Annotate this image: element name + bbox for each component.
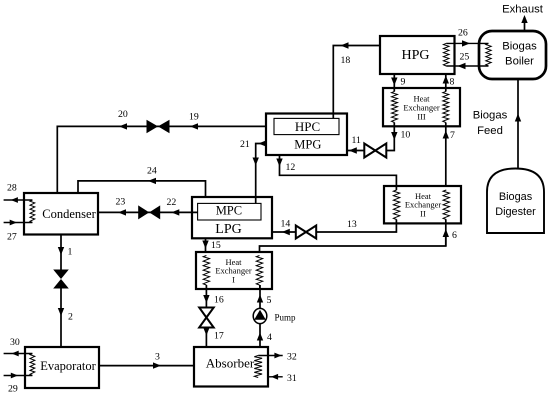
label 26 bbox=[458, 28, 468, 39]
label 14 bbox=[281, 219, 291, 230]
svg-text:12: 12 bbox=[286, 162, 296, 173]
svg-text:18: 18 bbox=[341, 55, 351, 66]
stream 16 line bbox=[205, 285, 207, 308]
stream 17 arrow bbox=[203, 328, 209, 336]
svg-text:MPC: MPC bbox=[216, 203, 242, 217]
stream 28 arrow bbox=[11, 197, 18, 203]
exhaust line bbox=[524, 17, 526, 31]
stream 7 arrow bbox=[443, 131, 449, 139]
heat exchanger I left coil bbox=[203, 256, 209, 286]
label 17 bbox=[214, 331, 224, 342]
svg-text:Biogas: Biogas bbox=[502, 41, 537, 53]
label 8 bbox=[450, 77, 455, 88]
svg-text:LPG: LPG bbox=[215, 222, 241, 237]
stream 30 line bbox=[4, 353, 33, 355]
label Exhaust bbox=[502, 4, 544, 16]
label 1 bbox=[68, 247, 73, 258]
svg-text:16: 16 bbox=[214, 295, 224, 306]
stream 24 arrow bbox=[148, 178, 156, 184]
label 22 bbox=[167, 197, 177, 208]
svg-text:20: 20 bbox=[118, 109, 128, 120]
stream 5 line bbox=[259, 285, 262, 309]
svg-text:31: 31 bbox=[287, 373, 297, 384]
biogas boiler bbox=[479, 31, 546, 79]
svg-text:28: 28 bbox=[7, 183, 17, 194]
stream 20 arrow bbox=[119, 123, 127, 129]
stream 14 line bbox=[272, 231, 296, 233]
valve V20 bbox=[147, 120, 170, 134]
stream 2 line bbox=[60, 289, 62, 348]
label 15 bbox=[211, 240, 221, 251]
svg-text:7: 7 bbox=[450, 130, 455, 141]
svg-text:Feed: Feed bbox=[477, 125, 503, 137]
label 6 bbox=[452, 230, 457, 241]
stream 8 arrow bbox=[443, 76, 449, 84]
label 25 bbox=[460, 52, 470, 63]
svg-text:HPC: HPC bbox=[295, 119, 320, 134]
stream 3 line bbox=[99, 365, 194, 367]
svg-text:Digester: Digester bbox=[495, 206, 536, 218]
label 18 bbox=[341, 55, 351, 66]
stream 32 arrow bbox=[274, 353, 281, 359]
stream 18 arrow bbox=[341, 42, 349, 48]
label 29 bbox=[8, 384, 18, 394]
svg-text:22: 22 bbox=[167, 197, 177, 208]
svg-text:9: 9 bbox=[401, 77, 406, 88]
stream 30 arrow bbox=[12, 351, 19, 357]
svg-text:6: 6 bbox=[452, 230, 457, 241]
stream 15 arrow bbox=[202, 241, 208, 249]
svg-text:3: 3 bbox=[155, 352, 160, 363]
label 24 bbox=[147, 166, 157, 177]
stream 19-20 line bbox=[57, 126, 266, 193]
svg-text:30: 30 bbox=[10, 337, 20, 348]
label Pump bbox=[275, 312, 297, 322]
label 7 bbox=[450, 130, 455, 141]
heat exchanger II right coil bbox=[443, 190, 449, 220]
stream 12 arrow bbox=[276, 159, 282, 167]
label 21 bbox=[240, 139, 250, 150]
stream 15 line bbox=[205, 238, 207, 252]
label 27 bbox=[7, 232, 17, 243]
absorber coil bbox=[254, 356, 262, 378]
label 31 bbox=[287, 373, 297, 384]
stream 8 line bbox=[445, 74, 447, 92]
stream 6 arrow bbox=[443, 229, 449, 237]
svg-text:Absorber: Absorber bbox=[206, 356, 255, 371]
absorber vessel bbox=[194, 347, 268, 387]
stream 4 line bbox=[259, 323, 261, 347]
stream 11 arrow bbox=[349, 147, 357, 153]
stream 32 line bbox=[258, 355, 283, 357]
label 10 bbox=[401, 130, 411, 141]
svg-text:27: 27 bbox=[7, 232, 17, 243]
label Biogas Feed bbox=[473, 110, 508, 138]
svg-text:Boiler: Boiler bbox=[505, 56, 534, 68]
label 16 bbox=[214, 295, 224, 306]
svg-text:17: 17 bbox=[214, 331, 224, 342]
svg-text:Condenser: Condenser bbox=[42, 207, 96, 221]
evaporator vessel bbox=[25, 347, 99, 388]
svg-text:Evaporator: Evaporator bbox=[40, 359, 96, 373]
stream 19 arrow bbox=[190, 123, 198, 129]
svg-text:25: 25 bbox=[460, 52, 470, 63]
svg-text:24: 24 bbox=[147, 166, 157, 177]
stream 1 arrow bbox=[58, 247, 64, 255]
stream 22-23 line bbox=[98, 211, 198, 213]
svg-text:4: 4 bbox=[267, 332, 272, 343]
stream 27 line bbox=[4, 222, 33, 224]
svg-text:III: III bbox=[417, 112, 426, 122]
svg-text:2: 2 bbox=[68, 312, 73, 323]
stream 21 arrow b bbox=[253, 158, 259, 166]
stream 3 arrow bbox=[153, 362, 161, 368]
stream 23 arrow bbox=[118, 209, 126, 215]
stream 2 arrow bbox=[58, 308, 64, 316]
valve V23 bbox=[138, 205, 160, 219]
valve V14 bbox=[296, 226, 316, 239]
heat exchanger II left coil bbox=[393, 190, 399, 220]
svg-text:13: 13 bbox=[347, 219, 357, 230]
svg-text:II: II bbox=[420, 208, 426, 218]
label 11 bbox=[352, 135, 362, 146]
stream 25 arrow bbox=[458, 63, 466, 69]
stream 21 arrow a bbox=[258, 141, 265, 147]
heat exchanger III bbox=[383, 88, 460, 126]
label 9 bbox=[401, 77, 406, 88]
heat exchanger III left coil bbox=[392, 92, 398, 123]
stream 4 arrow bbox=[257, 333, 263, 341]
HPC-MPG vessel bbox=[266, 114, 347, 156]
label 19 bbox=[189, 112, 199, 123]
svg-text:8: 8 bbox=[450, 77, 455, 88]
stream 13 line bbox=[316, 220, 396, 233]
stream 1 line bbox=[60, 235, 62, 270]
svg-text:32: 32 bbox=[287, 352, 297, 363]
svg-text:HPG: HPG bbox=[401, 48, 429, 63]
stream 10 arrow bbox=[391, 132, 397, 140]
stream 14 arrow bbox=[282, 229, 290, 235]
svg-text:I: I bbox=[232, 274, 235, 284]
exhaust arrow bbox=[521, 15, 527, 23]
svg-text:10: 10 bbox=[401, 130, 411, 141]
stream 10 line bbox=[386, 123, 394, 151]
label 28 bbox=[7, 183, 17, 194]
high pressure generator HPG bbox=[380, 36, 455, 74]
stream 16 arrow bbox=[203, 295, 209, 303]
stream 26 arrow bbox=[462, 40, 470, 46]
label 4 bbox=[267, 332, 272, 343]
svg-text:11: 11 bbox=[352, 135, 362, 146]
MPC inner drum bbox=[198, 203, 261, 220]
svg-text:1: 1 bbox=[68, 247, 73, 258]
HPG heating coil bbox=[443, 43, 449, 66]
condenser vessel bbox=[24, 193, 98, 235]
label 2 bbox=[68, 312, 73, 323]
stream 25 line bbox=[446, 65, 488, 67]
stream 27 arrow bbox=[10, 220, 17, 226]
valve V1-2 bbox=[53, 270, 69, 289]
label 5 bbox=[267, 295, 272, 306]
biogas feed line bbox=[517, 79, 519, 169]
svg-text:29: 29 bbox=[8, 384, 18, 394]
svg-text:5: 5 bbox=[267, 295, 272, 306]
svg-text:MPG: MPG bbox=[294, 138, 321, 152]
stream 11 line bbox=[347, 150, 364, 152]
stream 17 line bbox=[205, 328, 207, 348]
biogas boiler coil bbox=[486, 43, 491, 66]
svg-text:Biogas: Biogas bbox=[473, 110, 508, 122]
label 3 bbox=[155, 352, 160, 363]
label 30 bbox=[10, 337, 20, 348]
label 32 bbox=[287, 352, 297, 363]
svg-text:14: 14 bbox=[281, 219, 291, 230]
stream 9 line bbox=[393, 74, 395, 92]
stream 7 line bbox=[445, 123, 447, 187]
label 12 bbox=[286, 162, 296, 173]
stream 18 line bbox=[333, 46, 380, 119]
heat exchanger III right coil bbox=[443, 92, 449, 123]
stream 9 arrow bbox=[391, 78, 397, 86]
label 20 bbox=[118, 109, 128, 120]
svg-text:Pump: Pump bbox=[275, 312, 297, 322]
valve V16-17 bbox=[199, 308, 214, 328]
stream 28 line bbox=[4, 199, 33, 201]
heat exchanger II bbox=[384, 186, 461, 223]
pump bbox=[253, 308, 267, 323]
stream 29 arrow bbox=[11, 373, 18, 379]
svg-text:19: 19 bbox=[189, 112, 199, 123]
HPC inner drum bbox=[274, 118, 339, 134]
evaporator coil bbox=[30, 354, 35, 376]
svg-text:23: 23 bbox=[116, 197, 126, 208]
svg-text:21: 21 bbox=[240, 139, 250, 150]
stream 6 line bbox=[445, 220, 447, 247]
svg-text:15: 15 bbox=[211, 240, 221, 251]
svg-text:Exhaust: Exhaust bbox=[502, 4, 544, 16]
label 23 bbox=[116, 197, 126, 208]
stream 22 arrow bbox=[171, 209, 179, 215]
label 13 bbox=[347, 219, 357, 230]
stream 31 line bbox=[268, 376, 283, 378]
heat exchanger I right coil bbox=[256, 256, 262, 286]
heat exchanger I bbox=[196, 252, 272, 289]
svg-text:Biogas: Biogas bbox=[499, 191, 533, 203]
stream 29 line bbox=[4, 375, 33, 377]
condenser coil bbox=[30, 200, 35, 223]
biogas digester bbox=[487, 169, 544, 234]
stream 26 line bbox=[446, 42, 488, 44]
stream 5-6 transfer line bbox=[260, 232, 446, 252]
stream 31 arrow bbox=[271, 374, 278, 380]
svg-text:26: 26 bbox=[458, 28, 468, 39]
stream 21 line bbox=[256, 144, 266, 204]
stream 5 arrow bbox=[257, 295, 263, 303]
valve V11 bbox=[364, 144, 386, 158]
stream 24 line bbox=[78, 181, 206, 197]
stream 12 line bbox=[280, 155, 397, 190]
MPC-LPG vessel bbox=[192, 197, 272, 238]
biogas feed arrow bbox=[515, 114, 521, 122]
